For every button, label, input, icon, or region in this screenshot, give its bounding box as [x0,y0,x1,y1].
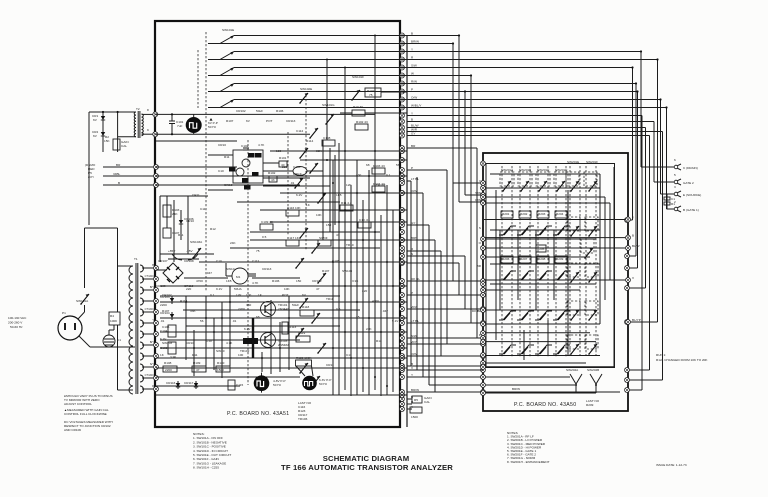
svg-text:GATE 2: GATE 2 [683,181,694,185]
svg-text:SW103A: SW103A [190,240,203,244]
svg-text:43: 43 [271,178,275,182]
svg-text:R106: R106 [276,109,284,113]
svg-text:10K: 10K [284,287,290,291]
wire vert x459 [458,263,460,295]
svg-text:C115: C115 [236,383,243,387]
mains plug P1 [58,316,82,340]
resistor R201 [501,211,513,218]
wires into left edge 167-185 [103,166,155,168]
transistor TR103 [261,333,276,348]
svg-text:SCHEMATIC DIAGRAM: SCHEMATIC DIAGRAM [323,454,410,463]
wire BRN y240 [407,239,435,241]
wire W/R y131.5 [407,131,663,133]
wire drop x649.5 [649,136,651,371]
terminal C DRAIN [641,166,674,168]
svg-text:SW101G: SW101G [322,103,335,107]
svg-text:R203: R203 [538,212,546,216]
svg-text:SW10: SW10 [226,267,235,271]
wire vert x423 [422,193,424,377]
svg-text:9: 9 [147,128,149,132]
wire vert x465 [464,92,466,196]
svg-text:15K: 15K [104,139,110,143]
svg-text:R/W: R/W [411,80,417,84]
resistor R101 [279,161,287,167]
svg-text:R: R [152,384,154,388]
svg-text:CR102: CR102 [236,109,246,113]
switch row y306 col [517,311,534,320]
svg-text:150: 150 [326,223,331,227]
switch mid 16 [311,376,320,387]
svg-text:2200: 2200 [160,303,167,307]
step bends into board edge [459,201,483,203]
terminal E SOURCE [661,193,675,195]
inverted label R110 [248,153,255,158]
switch top chain 1 [208,43,220,45]
svg-text:B (GATE 1): B (GATE 1) [683,208,699,212]
wire O/W y99.5 [407,99,661,101]
switch top chain 3 [208,75,220,77]
switch mid 9 [295,258,304,269]
svg-text:R11: R11 [178,233,184,237]
board right edge connectors [626,217,631,222]
svg-text:S/W: S/W [411,64,417,68]
svg-text:9.1V: 9.1V [392,319,399,323]
svg-text:GY: GY [411,132,415,136]
switch mid 4 [309,163,318,174]
svg-text:100: 100 [246,293,251,297]
inverted label alignment [243,338,258,344]
diode CR2 [101,130,105,138]
svg-text:R117 1K: R117 1K [287,236,300,240]
svg-text:R108: R108 [164,361,172,365]
svg-text:6.2V: 6.2V [244,327,251,331]
svg-text:50uF: 50uF [292,303,299,307]
switch row y306 col [499,311,516,320]
svg-text:800pF: 800pF [293,172,302,176]
wire R/W y83.5 [407,83,636,85]
diode CR106 [179,218,183,226]
wire GY y225 [407,224,429,226]
resistor R108 [163,366,177,372]
svg-text:R124 CHANGED FROM 10K TO 20K: R124 CHANGED FROM 10K TO 20K [656,358,708,362]
resistor R103 24K [163,205,171,217]
svg-text:TR10: TR10 [346,243,354,247]
svg-text:S: S [479,226,481,230]
svg-text:R12: R12 [376,339,382,343]
board 43A50 inner matrix frame [486,164,615,368]
svg-text:330: 330 [246,303,251,307]
svg-text:SW101E: SW101E [222,28,234,32]
horizontal wires main box [156,140,237,142]
svg-text:C10: C10 [206,339,212,343]
resistor R4 [109,312,120,325]
svg-text:R102: R102 [268,171,276,175]
resistor R204 [555,211,567,218]
wire vert x411 [410,181,412,366]
capacitor C115 [228,380,235,390]
svg-text:R206: R206 [502,257,510,261]
svg-text:100-130 VAC: 100-130 VAC [8,316,27,320]
switch mid 2 [309,128,318,139]
svg-text:GY: GY [411,221,415,225]
svg-text:Y: Y [152,318,154,322]
svg-text:POT: POT [266,119,272,123]
wire vert x453 [452,44,454,282]
svg-text:1500: 1500 [411,415,418,419]
zener diodes CR103 CR104 [170,296,174,304]
wire BR/W bottom long [407,391,620,393]
wire vert x429 [428,225,430,385]
component R102 [355,124,368,130]
svg-text:Y: Y [632,216,634,220]
dashed gang vertical cluster [287,132,289,235]
svg-text:SW201A: SW201A [501,168,514,172]
svg-text:24K: 24K [366,327,372,331]
svg-text:R208: R208 [538,257,546,261]
svg-text:75: 75 [256,249,260,253]
svg-text:8. SW101H - C255: 8. SW101H - C255 [193,466,219,470]
svg-text:SW201D: SW201D [555,168,568,172]
svg-text:BR/W: BR/W [411,40,419,44]
svg-text:BL/YP: BL/YP [632,318,641,322]
svg-text:R11 4.3: R11 4.3 [341,201,352,205]
svg-text:47: 47 [196,368,200,372]
switch top chain 4 [208,91,220,93]
board 43A50 gang dashed lines [501,166,503,358]
svg-text:LT BL: LT BL [411,319,419,323]
svg-text:R12: R12 [210,227,216,231]
switch mid 15 [299,363,308,374]
svg-text:CR102: CR102 [162,293,172,297]
wire seg y113 [340,112,352,114]
switch mid 1 [299,93,308,104]
svg-text:6: 6 [674,158,676,162]
dashed gang lines mid [305,95,307,250]
svg-text:150: 150 [296,279,301,283]
svg-text:Y: Y [411,48,413,52]
svg-text:SW204B: SW204B [587,368,599,372]
svg-text:CR108: CR108 [184,259,194,263]
wire drop x666.5 [666,108,668,210]
wire LT BL y323 [407,322,483,324]
board interior horizontal wires [490,173,600,175]
svg-text:SW204A: SW204A [566,368,579,372]
svg-text:3.9K: 3.9K [352,279,359,283]
wire BR/W y43.5 [407,43,453,45]
svg-text:C10: C10 [218,169,224,173]
svg-text:2N5482: 2N5482 [278,343,289,347]
inverted label B110 [252,172,259,177]
svg-text:C103: C103 [293,165,301,169]
switch mid 13 [295,328,304,339]
resistor R209 [555,256,567,263]
svg-text:C102: C102 [241,144,249,148]
component R116 [286,210,299,216]
svg-text:2200: 2200 [238,307,245,311]
wire drop x632.5 [632,68,634,221]
svg-text:R106: R106 [272,279,280,283]
svg-text:34BL: 34BL [113,172,121,176]
svg-text:47: 47 [336,233,340,237]
svg-text:220: 220 [186,287,191,291]
svg-text:5: 5 [674,173,676,177]
svg-text:DK BL: DK BL [411,277,420,281]
svg-text:W/Y: W/Y [411,340,417,344]
svg-text:C1: C1 [117,338,121,342]
meter M1 [232,268,248,284]
svg-text:SW201B: SW201B [519,168,531,172]
svg-text:BR/W: BR/W [411,388,419,392]
edge connector stack mid [400,149,405,154]
svg-text:E (SOURCE): E (SOURCE) [683,193,701,197]
svg-text:TR106: TR106 [298,417,308,421]
svg-text:CT/VAC: CT/VAC [145,274,154,278]
switch mid 10 [317,273,326,284]
svg-text:R209: R209 [586,403,594,407]
wire O/W y356 [407,355,483,357]
svg-text:R204: R204 [556,212,564,216]
wire Y y115.5 [407,115,642,117]
svg-text:100: 100 [276,149,281,153]
svg-text:3: 3 [674,185,676,189]
svg-text:(CH: (CH [88,175,94,179]
svg-text:T2: T2 [136,107,140,111]
svg-text:S/Y: S/Y [150,362,154,366]
svg-text:24K: 24K [172,212,178,216]
svg-text:R209: R209 [556,257,564,261]
wire B y366 [407,365,483,367]
wire R y251 [407,250,441,252]
connector box edge y114 [153,112,158,117]
svg-text:.047: .047 [382,309,388,313]
capacitor C1 right [666,194,668,209]
svg-text:56: 56 [396,163,400,167]
svg-text:0.5: 0.5 [262,235,267,239]
switch mid 12 [311,313,320,324]
resistor R202 [519,211,531,218]
svg-text:C108: C108 [323,136,331,140]
svg-text:R4: R4 [110,314,114,318]
switch row y340 col [553,345,570,354]
resistor R120 [216,366,230,372]
heavy bar [252,318,254,358]
svg-text:4.7K: 4.7K [252,281,259,285]
svg-text:CR113: CR113 [286,119,296,123]
resistor R118 [300,310,314,316]
wire Y y377 [407,376,483,378]
board inner vertical wires [599,174,601,324]
wire P y170 [407,169,447,171]
svg-text:TR102: TR102 [376,183,386,187]
svg-text:B/Y: B/Y [150,285,154,289]
wire drop x637.5 [637,92,639,269]
switch top chain 5 [208,107,220,109]
svg-text:R5: R5 [414,398,418,402]
switch top chain 2 [208,59,220,61]
small wires cluster [208,154,233,156]
svg-text:-15V: -15V [186,249,193,253]
resistor R203 [537,211,549,218]
transistor TR circle 2 [236,168,244,176]
svg-text:68: 68 [366,163,370,167]
wire drop x662.5 [662,132,664,381]
component C10 [358,222,371,228]
svg-text:1500: 1500 [217,368,224,372]
terminal GATE 2 [654,181,674,183]
component C108 [322,140,335,146]
svg-text:50 Hz: 50 Hz [319,382,328,386]
svg-text:75: 75 [369,93,373,97]
svg-text:T1: T1 [134,257,138,261]
svg-text:0.1: 0.1 [386,173,391,177]
svg-text:CR107: CR107 [158,259,168,263]
svg-text:CR11: CR11 [192,193,200,197]
svg-text:Y: Y [411,373,413,377]
svg-text:O/W: O/W [475,198,481,202]
svg-text:W/BL/Y: W/BL/Y [411,104,422,108]
wire vert x441 [440,251,442,356]
svg-text:4700: 4700 [196,279,203,283]
resistor R119 [296,336,310,342]
svg-text:ADJUST CONTROL: ADJUST CONTROL [64,402,92,406]
svg-text:O/W: O/W [411,96,417,100]
wire Y y51.5 [407,51,641,53]
svg-text:C11: C11 [200,207,206,211]
wire vert x465 [464,256,466,309]
svg-text:ISSUE DATE: 1-12-73: ISSUE DATE: 1-12-73 [656,463,687,467]
wire W/V y309 [407,308,483,310]
svg-text:DK BL: DK BL [472,309,481,313]
switch row y221 col3 [535,226,552,235]
wire LT BL y181 [407,180,411,182]
svg-text:P.C. BOARD NO. 43A50: P.C. BOARD NO. 43A50 [514,402,576,408]
svg-text:R10 3K: R10 3K [353,105,364,109]
vertical wires right of cluster [322,140,324,240]
junction dots [332,261,334,263]
wire W/Y y344 [407,343,483,345]
svg-text:R1: R1 [671,202,675,206]
svg-text:Y: Y [411,112,413,116]
svg-text:TR10: TR10 [326,297,334,301]
svg-text:SW3F: SW3F [319,236,328,240]
svg-text:R207: R207 [520,257,528,261]
svg-text:R109: R109 [193,361,201,365]
svg-text:10K: 10K [316,213,322,217]
wire vert x375 [374,36,376,156]
diode CR1 [101,114,105,122]
svg-text:BR: BR [411,144,416,148]
svg-text:24K: 24K [230,241,236,245]
svg-text:4.7K: 4.7K [226,341,233,345]
svg-text:4700: 4700 [372,299,379,303]
svg-text:C112: C112 [252,259,259,263]
transistor TR circle 1 [242,159,250,167]
svg-text:R101: R101 [279,156,287,160]
capacitor C1 mains [103,335,115,347]
svg-text:4.7K: 4.7K [258,143,265,147]
board left edge connectors [481,161,486,166]
svg-text:LT BL: LT BL [411,177,419,181]
dashed gang line top switches [205,32,207,292]
component C109 [260,224,273,230]
wires left interior [159,196,161,262]
svg-text:B: B [632,234,634,238]
PC board 43A50 outline [483,153,628,411]
bus wire vertical [406,35,408,427]
wire W/BL/Y y107.5 [407,107,667,109]
wire S/W y338 [407,337,483,339]
svg-text:C (DRAIN): C (DRAIN) [683,166,698,170]
svg-text:50 Hz: 50 Hz [208,125,217,129]
svg-text:R107: R107 [322,269,330,273]
diode CR116 [176,381,180,389]
wire S/W y67.5 [407,67,633,69]
component SW3F [318,240,331,246]
inverted label SW2C [244,185,251,190]
wire drop x641 [640,52,642,168]
wire B y35.5 [407,35,459,37]
svg-text:R102 43: R102 43 [356,120,368,124]
svg-text:R202: R202 [520,212,528,216]
svg-text:0.1: 0.1 [210,293,215,297]
svg-text:C109 30: C109 30 [261,220,273,224]
svg-text:CT/VAC: CT/VAC [145,307,154,311]
svg-text:P: P [411,88,413,92]
svg-text:6.2V: 6.2V [296,193,303,197]
svg-text:RUN 1:: RUN 1: [656,353,666,357]
svg-text:2200: 2200 [165,368,172,372]
wire DK BL y281 [407,280,483,282]
svg-text:R107: R107 [162,309,170,313]
wire drop x636 [635,84,637,257]
svg-text:O/W: O/W [411,352,417,356]
svg-text:56: 56 [200,319,204,323]
wire O/W y193 [407,192,423,194]
svg-text:8: 8 [147,108,149,112]
svg-text:BR/W: BR/W [512,387,520,391]
svg-text:POT: POT [282,293,288,297]
svg-text:SW201F: SW201F [586,160,598,164]
wire left column [88,112,90,225]
svg-text:33K: 33K [316,149,322,153]
svg-text:CR10: CR10 [186,219,194,223]
svg-text:SW10: SW10 [216,349,225,353]
svg-text:75: 75 [356,315,360,319]
svg-text:B/Y: B/Y [150,340,154,344]
svg-text:CR11: CR11 [326,363,334,367]
svg-text:R119: R119 [298,331,305,335]
svg-text:SW201E: SW201E [567,160,579,164]
wires into board 43A50 right edge [627,219,633,221]
resistor R207 [519,256,531,263]
wires plug to switch [78,312,85,319]
svg-text:R118: R118 [302,305,309,309]
wire GY y135.5 [407,135,650,137]
junction dots top wires [458,34,460,36]
svg-text:O/W: O/W [411,189,417,193]
component R103 [372,168,385,174]
svg-text:CR10: CR10 [218,143,226,147]
svg-text:SW103: SW103 [342,269,352,273]
svg-text:2200: 2200 [282,165,289,169]
svg-text:C103: C103 [160,346,168,350]
svg-text:50-60 Hz: 50-60 Hz [10,325,23,329]
bridge rectifier CR107-CR110 [163,263,183,283]
switch row y306 col [553,311,570,320]
wire vert x447 [446,170,448,344]
svg-text:S/W: S/W [475,191,481,195]
svg-text:S/W: S/W [411,334,417,338]
